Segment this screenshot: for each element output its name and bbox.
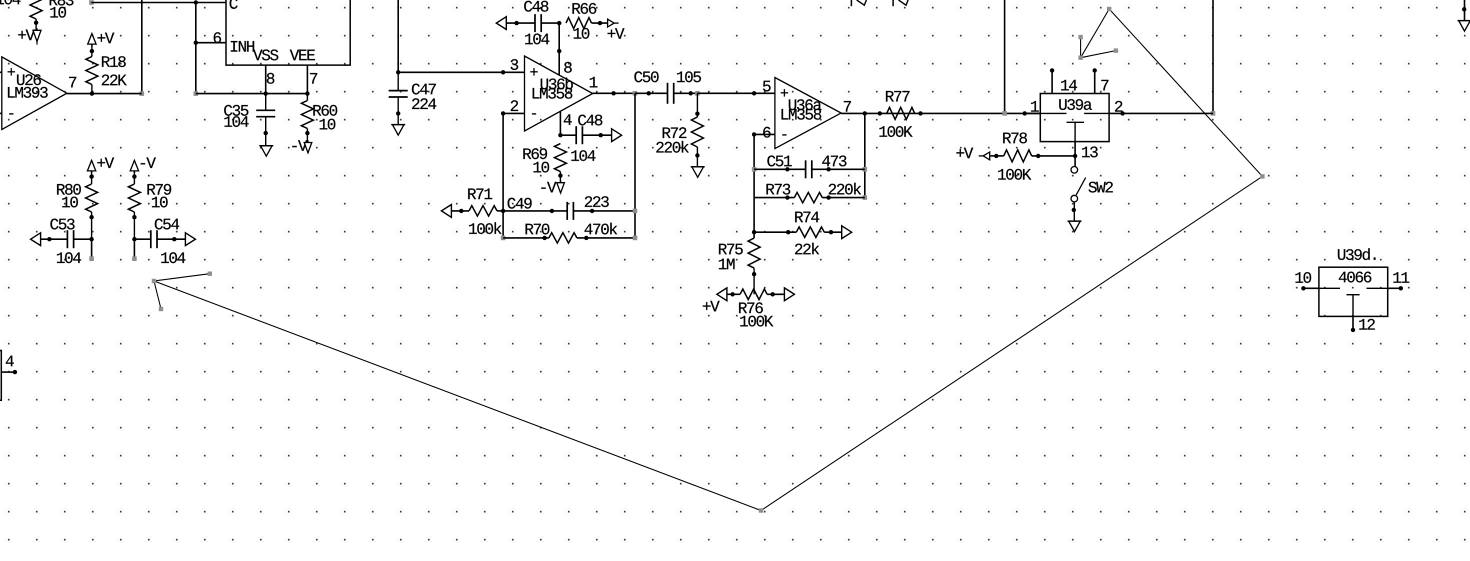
value label 104 (clipped, top-left) [0,0,20,4]
wire (supply row) [196,93,308,95]
power +V (down arrow) [18,28,41,44]
pin 14 stub (U39a) [1050,68,1077,93]
power -V (R60) [292,140,311,153]
resistor R73 220k [754,183,865,203]
annotation arrow (selected polyline with handles) [152,7,1265,513]
resistor R78 100K [991,132,1076,179]
resistor R70 470k [503,223,635,243]
wire (pin 4 lead) [558,111,562,137]
junction (top wire) [194,0,198,4]
capacitor C47 224 [389,72,437,124]
wire (vertical x=1213 from top) [1211,0,1216,116]
connector +V (right of R66) [608,19,625,39]
wire (C53 rail bottom) [89,237,94,261]
wire (vertical into C47 node) [397,0,399,72]
ground (under C35) [259,146,273,157]
junction (R60 top) [305,91,309,95]
resistor R60 10 [301,94,337,143]
pin 10 wire (U39d) [1295,272,1318,290]
wire (vertical net x=141.8 from top edge) [140,0,145,96]
wire (pin 3 net from C47) [398,70,524,74]
connector (left, C48) [496,17,506,30]
wire (C50 out to U36a pin5) [697,91,775,95]
junction (R72 top) [695,91,700,96]
pin 7 stub (U39a) [1093,68,1109,93]
wire (feedback rail x=635) [633,93,638,240]
resistor R76 100K [727,289,785,327]
pin 13 stub (U39a) [1073,142,1098,167]
junction (R18 bottom) [90,91,94,95]
wire (INH pin 6 lead) [194,32,226,45]
pin 2 wire (U39a) [1109,101,1213,116]
connector (right, R76) [784,288,794,301]
IC U? (clipped box, pins C INH VSS VEE) [226,0,350,65]
wire (vertical x=1004.6 from top) [1002,0,1007,116]
wire (C54 rail bottom) [132,239,137,261]
pin 1 wire (U39a) [1022,101,1040,116]
switch SW2 [1071,167,1113,222]
connector (left, C53) [31,233,41,246]
resistor R74 22k [754,212,842,255]
resistor R69 10 [523,144,566,183]
resistor R71 100k [451,189,503,234]
resistor R66 10 [566,3,608,39]
resistor R80 10 [57,171,98,239]
op-amp U36a LM358 [763,78,851,149]
wire (U36b output) [593,91,638,96]
power -V (R79) [130,157,156,172]
ground (under R72) [691,167,705,178]
resistor bottom (clipped, x=893) [893,0,908,6]
resistor bottom (clipped, x=851) [851,0,866,6]
resistor R83 10 (clipped) [30,0,73,30]
ground (under SW2) [1068,221,1082,232]
connector (right, R74) [842,226,852,239]
wire (pin2 rail to R70) [501,211,506,240]
wire (VSS pin 8 lead) [266,65,275,94]
op-amp U36b LM358 [511,56,598,131]
connector (left, R71) [441,205,451,218]
wire (vertical net x=195.8 down to output row) [194,43,199,96]
power +V (R18) [88,33,115,46]
capacitor C48 104 (top) [506,1,559,45]
wire (vertical from top wire to INH pin row) [195,3,197,43]
analog switch U39d 4066 [1319,248,1388,316]
connector +V (left, R76) [703,288,727,312]
wire (pin 8 stub of U36b) [557,23,572,75]
wire (U36a output row) [841,111,1040,115]
power +V (R80) [87,157,114,172]
pin 11 wire (U39d) [1388,272,1410,290]
capacitor C50 105 [634,71,701,103]
wire (VEE pin 7 lead) [307,65,317,94]
connector (right, C54) [185,233,195,246]
resistor R18 22K [86,44,127,93]
resistor R72 220k [656,93,703,167]
capacitor C48 104 (pin 4) [560,115,611,161]
resistor R75 1M [719,238,760,294]
analog switch U39a [1040,94,1109,142]
op-amp U26 LM393 [0,57,76,130]
wire (top net to IC pin C) [89,0,226,5]
resistor R79 10 [128,171,171,239]
wire (U26 output) [67,93,142,95]
connector (right, C48 pin4) [612,129,622,142]
ground (top right) [1458,0,1470,31]
wire (rail to R74/R75) [752,198,756,239]
junction (pin2 rail / C49) [501,209,505,213]
capacitor C35 104 [224,94,275,146]
resistor R77 100K [879,91,922,137]
junction (C35 top) [264,91,268,95]
junction (C48/R66/pin8) [557,21,561,25]
pin 12 stub (U39d) [1351,316,1375,332]
capacitor C53 104 [41,219,92,264]
wire (pin 2 net) [501,111,525,211]
power -V (R69) [541,181,564,193]
wire (feedback rail x=864.8) [863,113,868,200]
capacitor C51 473 [752,155,865,178]
wire (pin 6 net) [752,132,775,197]
ground (under C47) [391,125,405,136]
junction (C47 node) [396,70,400,74]
capacitor C54 104 [132,219,185,264]
capacitor C49 223 [503,196,635,220]
connector +V (left, R78) [956,148,989,160]
connector box (clipped, left edge) pin 4 [0,351,17,401]
